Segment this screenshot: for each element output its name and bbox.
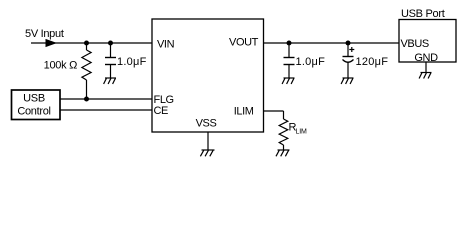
pin ILIM [234, 106, 254, 118]
ground USB Port [419, 73, 431, 79]
svg-text:1.0μF: 1.0μF [296, 56, 326, 68]
wire ILIM [264, 111, 284, 119]
label C1 value 1.0uF [117, 56, 147, 68]
svg-text:VOUT: VOUT [229, 37, 259, 49]
svg-text:5V Input: 5V Input [25, 28, 64, 40]
pin FLG [154, 94, 174, 106]
svg-text:120μF: 120μF [356, 56, 389, 68]
wire VSS [207, 132, 209, 150]
svg-text:VIN: VIN [157, 39, 175, 51]
ground C2 [282, 78, 294, 84]
svg-text:LIM: LIM [296, 129, 307, 136]
node 5V Input label [25, 28, 64, 40]
wire GND pin [425, 62, 427, 73]
node R1 top junction [84, 41, 89, 46]
svg-text:ILIM: ILIM [234, 106, 254, 118]
capacitor C2 1.0uF output [284, 43, 295, 78]
ground VSS [200, 150, 214, 156]
node C3 top junction [346, 41, 351, 46]
ground C1 [104, 78, 116, 84]
op-amp U1 regulator box [152, 19, 264, 132]
node FLG junction [84, 97, 89, 102]
wire VOUT rail [264, 42, 400, 44]
node C2 top junction [287, 41, 292, 46]
ground RLIM [276, 150, 290, 156]
node C1 top junction [108, 41, 113, 46]
pin VSS [196, 118, 217, 130]
wire FLG [60, 98, 152, 100]
svg-text:USB: USB [23, 93, 45, 105]
pin VIN [157, 39, 175, 51]
svg-text:100k Ω: 100k Ω [44, 60, 77, 72]
USB Port box [399, 8, 456, 64]
label C3 value 120uF [356, 56, 389, 68]
ground C3 [341, 78, 353, 84]
wire VIN rail [31, 42, 152, 44]
svg-text:VSS: VSS [196, 118, 217, 130]
svg-text:CE: CE [154, 105, 169, 117]
resistor RLIM [279, 119, 288, 150]
label RLIM value [289, 122, 307, 136]
pin CE [154, 105, 169, 117]
svg-text:1.0μF: 1.0μF [117, 56, 147, 68]
label C2 value 1.0uF [296, 56, 326, 68]
capacitor C1 1.0uF input [105, 43, 116, 78]
label 100k ohm value [44, 60, 77, 72]
USB Control box [12, 90, 61, 120]
wire CE [60, 109, 152, 111]
node plus polarity mark [349, 47, 354, 52]
node input arrow [46, 39, 58, 47]
svg-text:USB Port: USB Port [401, 8, 445, 20]
svg-text:Control: Control [17, 106, 50, 118]
svg-text:VBUS: VBUS [401, 38, 429, 50]
resistor R1 100k [82, 43, 91, 99]
pin VOUT [229, 37, 259, 49]
capacitor C3 120uF polarized [343, 43, 354, 78]
